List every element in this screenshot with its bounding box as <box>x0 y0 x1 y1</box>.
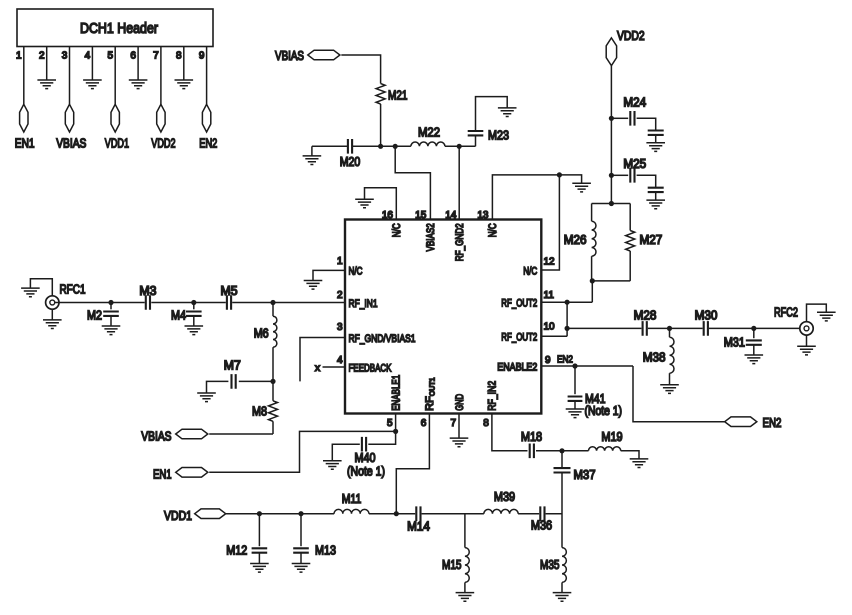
svg-text:1: 1 <box>16 51 22 62</box>
wire: M5 to pin 2 RF_IN1 <box>232 302 345 304</box>
connector VDD1 <box>164 509 226 523</box>
node (M12 tap) <box>257 511 262 516</box>
svg-text:6: 6 <box>421 418 427 429</box>
svg-text:7: 7 <box>450 418 456 429</box>
capacitor M30 <box>695 309 718 336</box>
svg-text:N/C: N/C <box>487 223 499 237</box>
wire: pin 11 to output line <box>566 302 568 336</box>
svg-text:VBIAS2: VBIAS2 <box>425 223 437 251</box>
svg-text:4: 4 <box>337 355 343 366</box>
svg-text:1: 1 <box>337 256 343 267</box>
ground (header pin 8) <box>175 80 194 89</box>
svg-text:M14: M14 <box>407 520 430 534</box>
svg-text:N/C: N/C <box>523 265 537 277</box>
svg-text:M40: M40 <box>355 451 376 465</box>
ground (M12) <box>250 564 269 573</box>
node (M6/M7/M8/pin3) <box>270 379 275 384</box>
capacitor M7 <box>207 359 274 393</box>
svg-text:EN2: EN2 <box>557 354 573 366</box>
svg-text:8: 8 <box>176 51 182 62</box>
svg-text:M22: M22 <box>418 125 440 139</box>
inductor M26 <box>564 204 596 281</box>
svg-text:FEEDBACK: FEEDBACK <box>349 362 392 374</box>
svg-text:M7: M7 <box>224 359 241 373</box>
svg-text:VBIAS: VBIAS <box>275 49 304 63</box>
svg-text:M38: M38 <box>643 351 666 365</box>
wire: pin 6 to VDD1 node <box>396 414 429 514</box>
capacitor M18 <box>521 430 542 458</box>
node (pin 6 / M14) <box>394 511 399 516</box>
node (M24 tap) <box>609 116 614 121</box>
capacitor M23 <box>468 97 509 147</box>
node (M4 tap) <box>191 300 196 305</box>
svg-text:M15: M15 <box>442 558 462 572</box>
svg-text:M8: M8 <box>252 405 267 419</box>
wire: pin 9 stub <box>541 365 633 367</box>
wire: loop to pin 11 net <box>591 281 593 302</box>
capacitor M24 <box>613 95 656 130</box>
DCH1 pin 4 stub <box>91 47 93 80</box>
ground (RFC1 bottom) <box>43 320 62 329</box>
svg-text:EN2: EN2 <box>763 416 782 430</box>
connector VBIAS (top) <box>308 50 340 60</box>
wire: VBIAS to M8 <box>209 433 273 435</box>
DCH1 pin 6 stub <box>137 47 139 80</box>
ground (pin 7) <box>450 438 469 447</box>
capacitor M41 <box>568 366 622 418</box>
DCH1 pin 7 stub <box>160 47 162 105</box>
svg-text:RFC2: RFC2 <box>774 306 798 320</box>
capacitor M25 <box>613 157 656 187</box>
inductor M19 <box>589 430 623 451</box>
svg-text:2: 2 <box>337 290 343 301</box>
ground (header pin 4) <box>83 80 102 89</box>
wire: VDD2 rail <box>610 66 612 204</box>
connector VBIAS (header pin 3) <box>56 104 86 150</box>
inductor M15 <box>442 514 469 593</box>
connector EN2 <box>725 416 782 430</box>
connector VDD1 (header pin 5) <box>105 104 129 150</box>
capacitor M40 <box>332 431 395 478</box>
wire: RFC2 to ground (bottom) <box>806 335 808 346</box>
node (output line start) <box>565 326 570 331</box>
svg-text:M35: M35 <box>540 558 560 572</box>
svg-text:11: 11 <box>544 290 555 301</box>
ground (RFC1 top) <box>21 288 40 297</box>
svg-text:M21: M21 <box>388 89 408 103</box>
wire: M39 to M36 <box>518 513 539 515</box>
ground (pins 12/13) <box>572 183 591 192</box>
ground (header pin 2) <box>37 80 56 89</box>
wire: RFC1 shield to ground (top) <box>30 279 52 296</box>
wire: to pin 14 RF_GND2 <box>458 146 460 219</box>
ground (M40) <box>323 461 342 470</box>
wire: RFC1 to ground (bottom) <box>51 309 53 320</box>
node (M6 top) <box>270 300 275 305</box>
wire: pin 10 stub <box>541 335 567 337</box>
connector RFC1 (coax) <box>46 296 59 309</box>
svg-text:ENABLE1: ENABLE1 <box>390 375 402 411</box>
svg-text:ENABLE2: ENABLE2 <box>497 361 537 373</box>
capacitor M20 <box>340 139 361 169</box>
svg-text:GND: GND <box>454 394 466 411</box>
svg-text:RF_OUT2: RF_OUT2 <box>501 298 537 310</box>
node (M21/VBIAS2) <box>378 144 383 149</box>
svg-text:3: 3 <box>337 322 343 333</box>
svg-text:M6: M6 <box>254 326 269 340</box>
svg-text:(Note 1): (Note 1) <box>347 464 385 478</box>
RFC1 inner pin <box>50 300 55 305</box>
svg-text:7: 7 <box>153 51 159 62</box>
wire: VDD1 to M11 <box>226 513 334 515</box>
svg-text:4: 4 <box>85 51 91 62</box>
connector RFC2 (coax) <box>800 322 813 335</box>
node (top of M26/M27) <box>609 201 614 206</box>
inductor M35 <box>540 511 566 593</box>
svg-text:9: 9 <box>545 355 551 366</box>
wire: pin 5 stub <box>395 414 397 432</box>
wire: M18 to node/M19 <box>536 450 589 452</box>
svg-text:M20: M20 <box>340 155 361 169</box>
wire: pin 4 stub <box>323 366 346 368</box>
svg-text:RF_IN1: RF_IN1 <box>349 298 378 310</box>
capacitor M3 <box>139 284 156 310</box>
ground (pin 1) <box>304 281 323 290</box>
connector EN1 <box>153 467 208 481</box>
resistor M8 <box>252 381 278 434</box>
svg-text:3: 3 <box>62 51 68 62</box>
wire: VBIAS to M21 <box>341 55 380 84</box>
wire: to pin 15 VBIAS2 <box>395 146 430 219</box>
node (pin 12/13 tie) <box>557 172 562 177</box>
svg-text:14: 14 <box>445 210 457 221</box>
wire: pin 11 stub <box>541 301 592 303</box>
wire: M20 to M22 <box>352 145 411 147</box>
inductor M11 <box>334 492 369 514</box>
svg-text:M11: M11 <box>342 492 362 506</box>
node (pin 15 tap) <box>393 144 398 149</box>
svg-text:EN2: EN2 <box>199 137 217 151</box>
svg-text:12: 12 <box>544 256 556 267</box>
ground (M35) <box>553 593 572 602</box>
capacitor M2 <box>87 303 119 327</box>
ground (M24) <box>646 143 665 152</box>
svg-text:M19: M19 <box>601 430 622 444</box>
wire: RFC2 shield to ground (top) <box>807 304 827 322</box>
wire: pin 3 to M7 node <box>300 338 345 382</box>
svg-text:VDD1: VDD1 <box>164 509 192 523</box>
svg-text:N/C: N/C <box>391 223 403 237</box>
wire: M36 to M35/M37 <box>546 513 562 515</box>
svg-text:M37: M37 <box>574 468 596 482</box>
svg-text:M18: M18 <box>521 430 542 444</box>
inductor M22 <box>411 125 445 146</box>
node (bottom of M26/M27) <box>590 278 595 283</box>
capacitor M36 <box>531 506 552 532</box>
inductor M39 <box>484 490 518 514</box>
svg-text:RF_OUT2: RF_OUT2 <box>501 332 537 344</box>
ground (M4) <box>185 326 204 335</box>
wire: gnd stem M20 <box>311 146 313 156</box>
svg-text:RFOUT1: RFOUT1 <box>424 377 437 410</box>
DCH1 pin 5 stub <box>114 47 116 105</box>
DCH1 header box <box>17 9 213 47</box>
svg-text:8: 8 <box>483 418 489 429</box>
DCH1 pin 1 stub <box>23 47 25 105</box>
connector VDD2 <box>606 29 645 66</box>
svg-text:VBIAS: VBIAS <box>56 137 86 151</box>
svg-text:EN1: EN1 <box>153 467 172 481</box>
svg-text:x: x <box>315 362 321 374</box>
ground (M15) <box>456 593 475 602</box>
svg-text:M31: M31 <box>724 335 745 349</box>
wire: pin 7 stub <box>458 414 460 439</box>
wire: M19 to ground <box>621 451 639 459</box>
wire: EN1 to pin 5 <box>209 431 395 472</box>
svg-text:M2: M2 <box>87 309 102 323</box>
wire: M28 to M30 <box>648 327 703 329</box>
node (M25 tap) <box>609 173 614 178</box>
svg-text:RF_GND2: RF_GND2 <box>454 223 466 261</box>
svg-text:16: 16 <box>382 210 394 221</box>
resistor M27 <box>626 204 663 281</box>
svg-text:5: 5 <box>387 418 393 429</box>
svg-text:RF_IN2: RF_IN2 <box>487 381 499 411</box>
node (M31 tap) <box>751 326 756 331</box>
node (M22 out / pin 14) <box>457 144 462 149</box>
connector VDD2 (header pin 7) <box>151 104 175 150</box>
ground (M20) <box>303 156 322 165</box>
capacitor M4 <box>171 303 202 327</box>
svg-text:EN1: EN1 <box>15 137 35 151</box>
DCH1 pin 3 stub <box>69 47 71 105</box>
ground (header pin 6) <box>129 80 148 89</box>
svg-text:VDD2: VDD2 <box>617 29 645 43</box>
svg-text:M24: M24 <box>623 95 646 109</box>
wire: loop bottom <box>592 280 631 282</box>
resistor M21 <box>376 84 407 105</box>
ground (M41) <box>566 409 585 418</box>
DCH1 pin 9 stub <box>206 47 208 105</box>
wire: gnd to M20 <box>312 145 348 147</box>
connector EN2 (header pin 9) <box>199 104 217 150</box>
ground (RFC2 bottom) <box>797 346 816 355</box>
connector EN1 (header pin 1) <box>15 104 35 150</box>
capacitor M13 <box>293 514 336 564</box>
DCH1 pin 2 stub <box>46 47 48 80</box>
wire: pin 9 to EN2 connector <box>633 366 725 422</box>
ground (M19) <box>630 459 649 468</box>
svg-text:M28: M28 <box>634 309 657 323</box>
wire: pin 12 tie wire <box>541 175 559 270</box>
wire: loop top <box>592 203 631 205</box>
svg-text:5: 5 <box>107 51 113 62</box>
capacitor M5 <box>221 284 238 310</box>
wire: M21 to VBIAS2 node <box>380 104 382 146</box>
svg-text:15: 15 <box>415 210 427 221</box>
node (M13 tap) <box>298 511 303 516</box>
node (pin 5 / EN1 / M40) <box>393 429 398 434</box>
wire: M14 to M39 <box>422 513 484 515</box>
node (pin 11 tap) <box>565 300 570 305</box>
wire: pin 16 to ground <box>365 188 397 220</box>
ground (RFC2 top) <box>817 312 836 321</box>
svg-text:M39: M39 <box>494 490 515 504</box>
svg-text:N/C: N/C <box>349 266 363 278</box>
svg-text:RFC1: RFC1 <box>60 283 86 297</box>
capacitor M28 <box>634 309 657 336</box>
capacitor M12 <box>226 514 267 564</box>
svg-text:M23: M23 <box>488 128 509 142</box>
wire: pin 1 to ground <box>313 270 345 280</box>
inductor M6 <box>254 303 277 382</box>
svg-text:M5: M5 <box>221 284 238 298</box>
ground (pin 16) <box>355 199 374 208</box>
svg-text:6: 6 <box>130 51 136 62</box>
ground (M2) <box>102 326 121 335</box>
ground (M31) <box>745 355 764 364</box>
wire: M22 to M23 <box>445 145 476 147</box>
capacitor (M24 shunt to ground) <box>648 131 664 143</box>
wire: M3 to M5 <box>151 302 226 304</box>
svg-text:RF_GND/VBIAS1: RF_GND/VBIAS1 <box>349 333 416 345</box>
svg-text:(Note 1): (Note 1) <box>585 404 623 418</box>
node (M38 tap) <box>667 326 672 331</box>
svg-text:M12: M12 <box>226 543 247 557</box>
ground (M25) <box>646 200 665 209</box>
svg-text:VDD2: VDD2 <box>151 137 175 151</box>
svg-text:M36: M36 <box>531 518 552 532</box>
svg-text:DCH1 Header: DCH1 Header <box>80 21 158 37</box>
svg-text:VDD1: VDD1 <box>105 137 129 151</box>
svg-text:VBIAS: VBIAS <box>141 429 171 443</box>
svg-text:13: 13 <box>477 210 489 221</box>
wire: RFC1 to M3 <box>52 302 144 304</box>
svg-text:9: 9 <box>199 51 205 62</box>
capacitor M14 <box>407 506 430 533</box>
svg-text:2: 2 <box>39 51 45 62</box>
svg-text:M4: M4 <box>171 309 186 323</box>
svg-text:M25: M25 <box>623 157 646 171</box>
DCH1 pin 8 stub <box>183 47 185 80</box>
connector VBIAS (bottom) <box>141 429 208 443</box>
wire: pin 8 to M18 <box>492 414 528 451</box>
svg-text:M30: M30 <box>695 309 718 323</box>
svg-text:M3: M3 <box>139 284 156 298</box>
svg-text:M26: M26 <box>564 233 587 247</box>
op-amp U1 (amplifier IC body) <box>345 220 541 414</box>
ground (M38) <box>660 385 679 394</box>
inductor M38 <box>643 328 674 384</box>
ground (M13) <box>292 564 311 573</box>
ground (M7) <box>197 393 216 402</box>
capacitor M37 <box>554 451 596 511</box>
wire: M30 to RFC2 <box>709 327 807 329</box>
node (M2 tap) <box>108 300 113 305</box>
wire: pin 13 to ground net <box>492 175 559 220</box>
wire: M11 to M14 <box>369 513 415 515</box>
wire: stub to ground (pins 12/13) <box>559 175 581 183</box>
svg-text:10: 10 <box>544 321 556 332</box>
wire: output to M28 <box>567 327 641 329</box>
node (EN2/M41 tap) <box>572 363 577 368</box>
svg-text:M27: M27 <box>640 233 663 247</box>
node (M18/M19/M37) <box>559 448 564 453</box>
ground (M23) <box>498 108 517 117</box>
svg-text:M13: M13 <box>315 543 336 557</box>
capacitor M31 <box>724 328 762 355</box>
capacitor (M25 shunt to ground) <box>648 188 664 200</box>
